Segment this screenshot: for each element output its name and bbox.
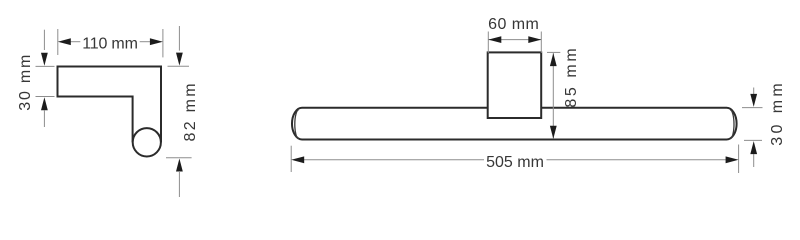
dim 110mm: right extension line: [162, 29, 164, 57]
dim 82mm: upper leader line: [178, 26, 180, 51]
dim 82mm: upper arrow (points down): [176, 53, 183, 66]
dim 85mm: lower arrow (points down): [550, 126, 557, 139]
right view: tube body: [292, 108, 737, 140]
dim 30mm left: lower tick: [36, 96, 55, 98]
left view: L-bracket outline: [58, 67, 162, 143]
svg-text:110 mm: 110 mm: [82, 36, 137, 53]
right view: tube left end cap arc: [295, 110, 299, 139]
dim 505mm: right extension line: [738, 145, 740, 174]
right view: tube right end cap arc: [730, 110, 734, 139]
dim 30mm right: upper arrow (points down): [750, 94, 757, 107]
dim 82mm: upper tick: [168, 65, 190, 67]
dim 110mm: left dimension line segment: [71, 41, 81, 43]
dim 30mm right: lower arrow (points up): [750, 141, 757, 154]
dim 505mm: left dimension line segment: [304, 159, 484, 161]
dim 30mm left: lower leader line: [43, 110, 45, 127]
dim 30mm left: upper leader line: [43, 30, 45, 50]
dim 82mm: lower tick: [166, 157, 192, 159]
dim 505mm: right dimension line segment: [547, 159, 727, 161]
dim 60mm: left arrow: [488, 36, 501, 43]
dim 505mm: left arrow: [291, 156, 304, 163]
svg-text:30 mm: 30 mm: [17, 53, 34, 111]
dim 82mm: lower leader line: [178, 171, 180, 197]
svg-text:505 mm: 505 mm: [486, 154, 544, 171]
dim 30mm right: lower tick: [744, 139, 762, 141]
dim 505mm: left extension line: [290, 146, 292, 172]
svg-text:60 mm: 60 mm: [488, 16, 539, 33]
dim 30mm right: lower leader line: [753, 154, 755, 167]
svg-text:82 mm: 82 mm: [182, 81, 199, 141]
dim 30mm right: upper tick: [742, 107, 763, 109]
dim 85mm: dimension line: [552, 53, 554, 139]
dim 110mm: left extension line: [57, 29, 59, 55]
dim 30mm right: upper leader stub: [753, 88, 755, 96]
dim 30mm left: upper tick: [36, 65, 55, 67]
dim 110mm: right dimension line segment: [140, 41, 151, 43]
svg-text:30 mm: 30 mm: [769, 80, 786, 146]
svg-text:85 mm: 85 mm: [563, 46, 580, 108]
dim 505mm: right arrow: [726, 156, 739, 163]
dim 85mm: upper arrow (points up): [550, 53, 557, 66]
dim 60mm: left extension line: [487, 32, 489, 54]
dim 30mm left: upper arrow (points down): [41, 53, 48, 66]
dim 110mm: left arrow: [58, 38, 71, 45]
dim 85mm: upper tick: [547, 51, 560, 53]
dim 60mm: dimension line: [488, 39, 541, 41]
left view: lamp tube circle: [133, 128, 161, 156]
dim 60mm: right arrow: [528, 36, 541, 43]
dim 110mm: right arrow: [150, 38, 163, 45]
dim 60mm: right extension line: [540, 32, 542, 54]
dim 30mm left: lower arrow (points up): [41, 97, 48, 110]
right view: lamp holder box: [488, 52, 542, 118]
dim 82mm: lower arrow (points up): [176, 159, 183, 172]
